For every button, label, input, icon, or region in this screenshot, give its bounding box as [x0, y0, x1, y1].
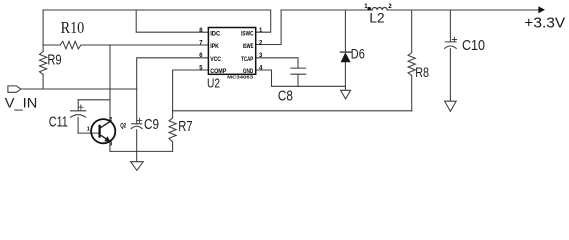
plus C11 [79, 105, 83, 109]
wire C11 branch [78, 99, 110, 101]
svg-text:C9: C9 [144, 116, 159, 133]
wire feedback COMP node [173, 110, 412, 112]
resistor R8 [408, 10, 415, 111]
svg-text:2: 2 [109, 117, 112, 123]
inductor L2 [372, 7, 387, 10]
svg-text:D6: D6 [351, 46, 365, 62]
svg-text:2: 2 [388, 4, 392, 10]
svg-text:R8: R8 [415, 64, 429, 80]
ground D6 [341, 90, 351, 99]
svg-text:IDC: IDC [210, 31, 220, 38]
diode D6 body [341, 52, 351, 62]
svg-text:1: 1 [259, 28, 263, 34]
svg-text:R9: R9 [47, 51, 61, 68]
svg-text:3: 3 [109, 141, 112, 147]
svg-text:GND: GND [243, 68, 254, 75]
capacitor C8 [291, 68, 306, 86]
wire TCAP pin3 to C8 [256, 58, 298, 68]
wire GND pin4 [256, 70, 346, 86]
svg-text:VCC: VCC [210, 56, 221, 63]
wire ISWE pin2 to top right rail [256, 10, 281, 45]
wire top-left rail [43, 10, 271, 32]
wire base [78, 132, 99, 134]
junction dot L2 pin1 [367, 7, 371, 11]
svg-text:ISWC: ISWC [241, 31, 254, 38]
svg-text:ISWE: ISWE [243, 43, 254, 50]
wire D6 vertical [344, 10, 346, 90]
transistor Q2 emitter arrow [104, 136, 110, 142]
wire V_IN input [21, 88, 137, 90]
ground stub C9 [136, 151, 138, 161]
svg-text:IPK: IPK [210, 43, 219, 50]
port V_IN [8, 86, 21, 92]
transistor Q2 collector diagonal [101, 122, 110, 128]
svg-text:2: 2 [259, 40, 263, 46]
wire VCC pin6 to C9 [137, 58, 209, 124]
svg-text:C10: C10 [462, 37, 485, 54]
diode D6 bar [340, 51, 351, 53]
resistor R7 [169, 118, 176, 151]
wire IDC pin8 from top rail [136, 10, 208, 32]
svg-text:R10: R10 [61, 18, 85, 37]
resistor R9 [40, 52, 47, 75]
svg-text:+3.3V: +3.3V [524, 14, 565, 31]
plus C10 [452, 37, 456, 41]
svg-text:Q2: Q2 [120, 124, 126, 130]
plus C9 [137, 118, 141, 122]
capacitor C10 [445, 42, 457, 49]
transistor Q2 emitter diagonal [101, 135, 109, 140]
arrow +3.3V [538, 6, 545, 13]
svg-text:8: 8 [199, 28, 203, 34]
svg-text:L2: L2 [369, 10, 384, 26]
wire collector vertical [109, 45, 111, 122]
wire bottom emitter to R7 [110, 150, 173, 152]
svg-text:COMP: COMP [210, 68, 227, 75]
svg-text:V_IN: V_IN [5, 95, 38, 111]
wire COMP pin5 to R7 [173, 70, 209, 118]
capacitor C11 [71, 100, 86, 133]
wire left vertical V_IN rail [42, 10, 44, 89]
svg-text:MC34063: MC34063 [227, 75, 253, 81]
capacitor C9 [131, 124, 142, 152]
resistor R10 [43, 41, 208, 49]
svg-text:U2: U2 [207, 76, 220, 90]
transistor Q2 bar [98, 125, 100, 138]
wire emitter down [109, 141, 111, 151]
ground C10 [445, 101, 457, 111]
ground C9 [131, 162, 144, 171]
IC U2 box [208, 28, 255, 75]
svg-text:TCAP: TCAP [241, 56, 254, 63]
svg-text:C11: C11 [49, 115, 68, 131]
svg-text:R7: R7 [178, 118, 192, 135]
wire top-right rail [281, 9, 538, 11]
svg-text:C8: C8 [278, 89, 293, 105]
svg-text:1: 1 [87, 127, 90, 133]
transistor Q2 circle [91, 119, 115, 143]
wire C10 vertical [449, 10, 451, 101]
